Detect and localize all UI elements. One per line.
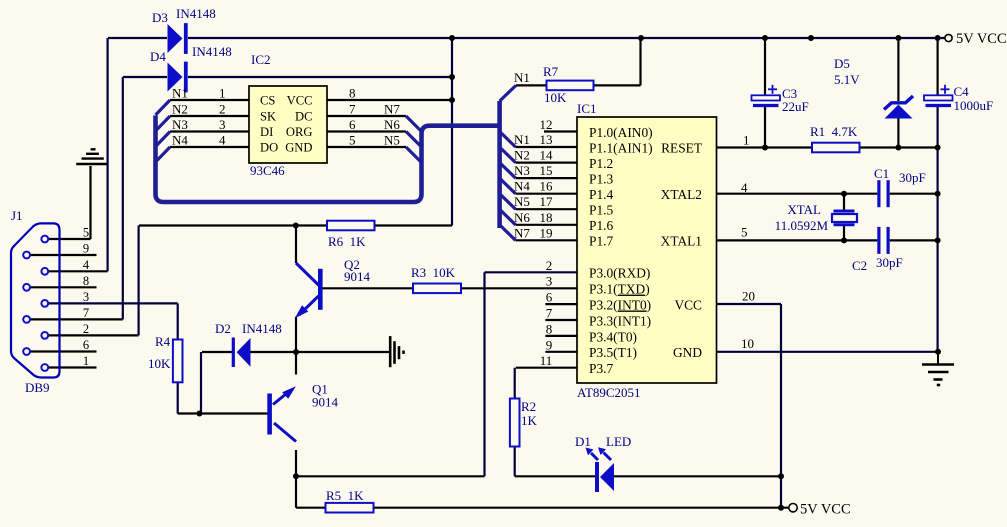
svg-text:VCC: VCC xyxy=(674,298,702,313)
svg-text:D3: D3 xyxy=(152,10,168,25)
svg-text:5.1V: 5.1V xyxy=(834,72,860,87)
svg-text:N2: N2 xyxy=(514,148,530,163)
svg-text:6: 6 xyxy=(546,290,553,305)
svg-text:11.0592M: 11.0592M xyxy=(775,218,829,233)
svg-text:DC: DC xyxy=(295,110,313,124)
svg-text:1: 1 xyxy=(743,133,750,148)
svg-text:R6 1K: R6 1K xyxy=(328,234,366,249)
svg-text:P3.0(RXD): P3.0(RXD) xyxy=(589,266,650,281)
svg-text:7: 7 xyxy=(546,306,553,321)
svg-text:P3.3(INT1): P3.3(INT1) xyxy=(589,313,651,328)
svg-text:9014: 9014 xyxy=(344,269,371,284)
svg-text:R3 10K: R3 10K xyxy=(411,265,456,280)
svg-text:1000uF: 1000uF xyxy=(954,98,994,113)
svg-text:D2: D2 xyxy=(215,321,231,336)
svg-text:10K: 10K xyxy=(148,356,171,371)
svg-text:P1.5: P1.5 xyxy=(589,203,613,218)
svg-text:19: 19 xyxy=(540,225,553,240)
svg-text:N1: N1 xyxy=(172,86,188,101)
svg-text:14: 14 xyxy=(540,148,554,163)
svg-text:RESET: RESET xyxy=(661,140,702,155)
svg-text:18: 18 xyxy=(540,210,553,225)
svg-text:12: 12 xyxy=(540,117,553,132)
svg-text:J1: J1 xyxy=(11,208,23,223)
svg-text:P1.6: P1.6 xyxy=(589,218,613,233)
svg-text:IN4148: IN4148 xyxy=(242,321,282,336)
svg-text:22uF: 22uF xyxy=(782,99,809,114)
svg-text:2: 2 xyxy=(83,322,89,336)
svg-text:DB9: DB9 xyxy=(25,380,50,395)
svg-text:D5: D5 xyxy=(834,56,850,71)
svg-text:GND: GND xyxy=(285,141,312,155)
svg-text:N4: N4 xyxy=(172,133,188,148)
svg-text:XTAL: XTAL xyxy=(787,202,821,217)
svg-text:5V VCC: 5V VCC xyxy=(800,502,851,518)
svg-text:N2: N2 xyxy=(172,102,188,117)
svg-text:P1.2: P1.2 xyxy=(589,156,613,171)
svg-text:CS: CS xyxy=(260,94,275,108)
svg-text:2: 2 xyxy=(546,258,553,273)
svg-text:IC2: IC2 xyxy=(251,52,271,67)
svg-text:3: 3 xyxy=(546,274,553,289)
svg-text:DI: DI xyxy=(260,125,273,139)
svg-text:P1.7: P1.7 xyxy=(589,234,613,249)
svg-text:R5 1K: R5 1K xyxy=(326,488,364,503)
svg-text:ORG: ORG xyxy=(286,125,313,139)
svg-text:16: 16 xyxy=(540,179,554,194)
svg-text:11: 11 xyxy=(540,353,553,368)
svg-text:N7: N7 xyxy=(384,102,400,117)
svg-text:7: 7 xyxy=(83,306,89,320)
svg-text:7: 7 xyxy=(349,102,356,117)
svg-text:93C46: 93C46 xyxy=(250,163,285,178)
svg-text:P1.0(AIN0): P1.0(AIN0) xyxy=(589,125,653,140)
svg-text:8: 8 xyxy=(349,86,356,101)
svg-text:3: 3 xyxy=(219,117,226,132)
svg-text:6: 6 xyxy=(83,338,89,352)
svg-text:1: 1 xyxy=(83,354,89,368)
svg-text:GND: GND xyxy=(673,345,702,360)
svg-text:R7: R7 xyxy=(543,64,559,79)
svg-text:C1: C1 xyxy=(874,166,889,181)
svg-text:AT89C2051: AT89C2051 xyxy=(577,385,641,400)
svg-text:IC1: IC1 xyxy=(577,101,597,116)
svg-text:1: 1 xyxy=(219,86,226,101)
svg-text:LED: LED xyxy=(606,434,631,449)
svg-text:9: 9 xyxy=(83,242,89,256)
svg-text:9: 9 xyxy=(546,337,553,352)
svg-text:8: 8 xyxy=(83,274,89,288)
svg-text:XTAL1: XTAL1 xyxy=(661,234,702,249)
svg-text:P3.1(TXD): P3.1(TXD) xyxy=(589,282,650,297)
svg-text:N3: N3 xyxy=(514,163,530,178)
svg-text:4: 4 xyxy=(83,258,90,272)
svg-text:4: 4 xyxy=(741,180,748,195)
svg-text:17: 17 xyxy=(540,194,554,209)
svg-text:D1: D1 xyxy=(575,434,591,449)
svg-text:P1.4: P1.4 xyxy=(589,187,613,202)
svg-text:C2: C2 xyxy=(852,258,867,273)
svg-text:N5: N5 xyxy=(514,194,530,209)
svg-text:VCC: VCC xyxy=(287,94,313,108)
svg-text:30pF: 30pF xyxy=(876,255,903,270)
svg-text:20: 20 xyxy=(742,289,755,304)
svg-text:P3.5(T1): P3.5(T1) xyxy=(589,345,637,360)
svg-text:10: 10 xyxy=(741,336,754,351)
svg-text:P3.2(INT0): P3.2(INT0) xyxy=(589,298,651,313)
svg-text:1K: 1K xyxy=(521,413,538,428)
svg-text:9014: 9014 xyxy=(312,395,339,410)
svg-text:P1.1(AIN1): P1.1(AIN1) xyxy=(589,140,653,155)
svg-text:15: 15 xyxy=(540,163,553,178)
svg-text:R2: R2 xyxy=(521,399,536,414)
svg-text:D4: D4 xyxy=(150,49,166,64)
svg-text:N3: N3 xyxy=(172,117,188,132)
svg-text:N1: N1 xyxy=(514,70,530,85)
svg-text:DO: DO xyxy=(260,141,278,155)
svg-text:4: 4 xyxy=(219,133,226,148)
svg-text:5: 5 xyxy=(349,133,356,148)
svg-text:XTAL2: XTAL2 xyxy=(661,187,702,202)
svg-text:5: 5 xyxy=(83,226,89,240)
svg-text:IN4148: IN4148 xyxy=(192,44,232,59)
svg-text:13: 13 xyxy=(540,132,553,147)
svg-text:8: 8 xyxy=(546,321,553,336)
svg-text:6: 6 xyxy=(349,117,356,132)
svg-text:5: 5 xyxy=(741,225,748,240)
svg-text:P1.3: P1.3 xyxy=(589,172,613,187)
svg-text:R1 4.7K: R1 4.7K xyxy=(810,124,858,139)
svg-text:N7: N7 xyxy=(514,225,530,240)
svg-text:3: 3 xyxy=(83,290,89,304)
svg-text:IN4148: IN4148 xyxy=(176,6,216,21)
svg-text:R4: R4 xyxy=(155,334,171,349)
svg-text:N6: N6 xyxy=(514,210,530,225)
svg-text:P3.7: P3.7 xyxy=(589,361,613,376)
svg-text:N5: N5 xyxy=(384,133,400,148)
svg-text:SK: SK xyxy=(260,110,276,124)
svg-text:5V VCC: 5V VCC xyxy=(956,31,1007,47)
svg-text:30pF: 30pF xyxy=(899,170,926,185)
svg-text:2: 2 xyxy=(219,102,226,117)
svg-text:N1: N1 xyxy=(514,132,530,147)
svg-text:P3.4(T0): P3.4(T0) xyxy=(589,329,637,344)
svg-text:C4: C4 xyxy=(954,84,970,99)
svg-text:N6: N6 xyxy=(384,117,400,132)
svg-text:N4: N4 xyxy=(514,179,530,194)
svg-text:10K: 10K xyxy=(544,90,567,105)
